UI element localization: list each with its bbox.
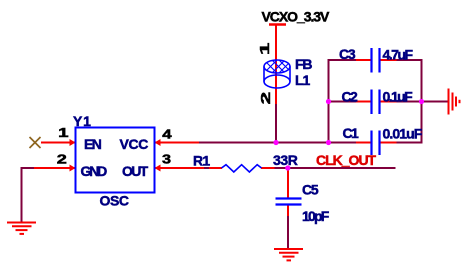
svg-text:VCXO_3.3V: VCXO_3.3V <box>262 8 331 24</box>
svg-text:C2: C2 <box>342 88 359 104</box>
svg-text:EN: EN <box>84 136 102 152</box>
svg-text:C3: C3 <box>339 46 356 62</box>
svg-text:3: 3 <box>162 153 171 167</box>
svg-text:10pF: 10pF <box>302 208 330 224</box>
svg-text:1: 1 <box>258 43 272 55</box>
svg-text:VCC: VCC <box>120 136 149 152</box>
svg-text:33R: 33R <box>273 152 298 168</box>
svg-text:C1: C1 <box>343 125 360 141</box>
svg-text:4.7uF: 4.7uF <box>383 46 414 62</box>
svg-text:FB: FB <box>295 56 312 72</box>
svg-text:R1: R1 <box>193 153 210 169</box>
svg-text:OUT: OUT <box>122 163 149 179</box>
svg-text:0.01uF: 0.01uF <box>383 125 423 141</box>
svg-text:2: 2 <box>57 153 67 167</box>
svg-text:1: 1 <box>58 127 69 140</box>
svg-text:L1: L1 <box>295 72 311 88</box>
svg-text:C5: C5 <box>302 182 319 198</box>
svg-text:4: 4 <box>162 128 172 141</box>
svg-text:2: 2 <box>259 92 273 105</box>
svg-text:Y1: Y1 <box>73 113 92 129</box>
svg-text:GND: GND <box>81 163 108 179</box>
svg-text:OSC: OSC <box>100 193 129 209</box>
svg-text:0.1uF: 0.1uF <box>383 88 414 104</box>
svg-text:CLK_OUT: CLK_OUT <box>316 152 377 168</box>
